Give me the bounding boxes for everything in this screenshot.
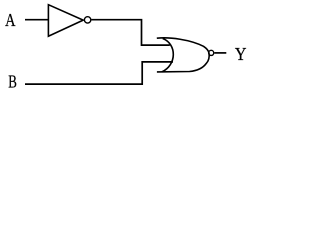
wire [91,20,170,45]
inverter U1 triangle [48,5,83,37]
svg-text:B: B [8,72,17,92]
nor-gate U2 back arc [162,39,174,72]
svg-text:Y: Y [235,44,247,64]
wire [25,19,48,21]
inverter U1 bubble [84,17,90,23]
nor-gate U2 bubble [209,50,214,55]
svg-text:A: A [5,9,16,30]
nor-gate U2 body [157,38,209,72]
wire [25,62,173,84]
wire [214,52,226,54]
